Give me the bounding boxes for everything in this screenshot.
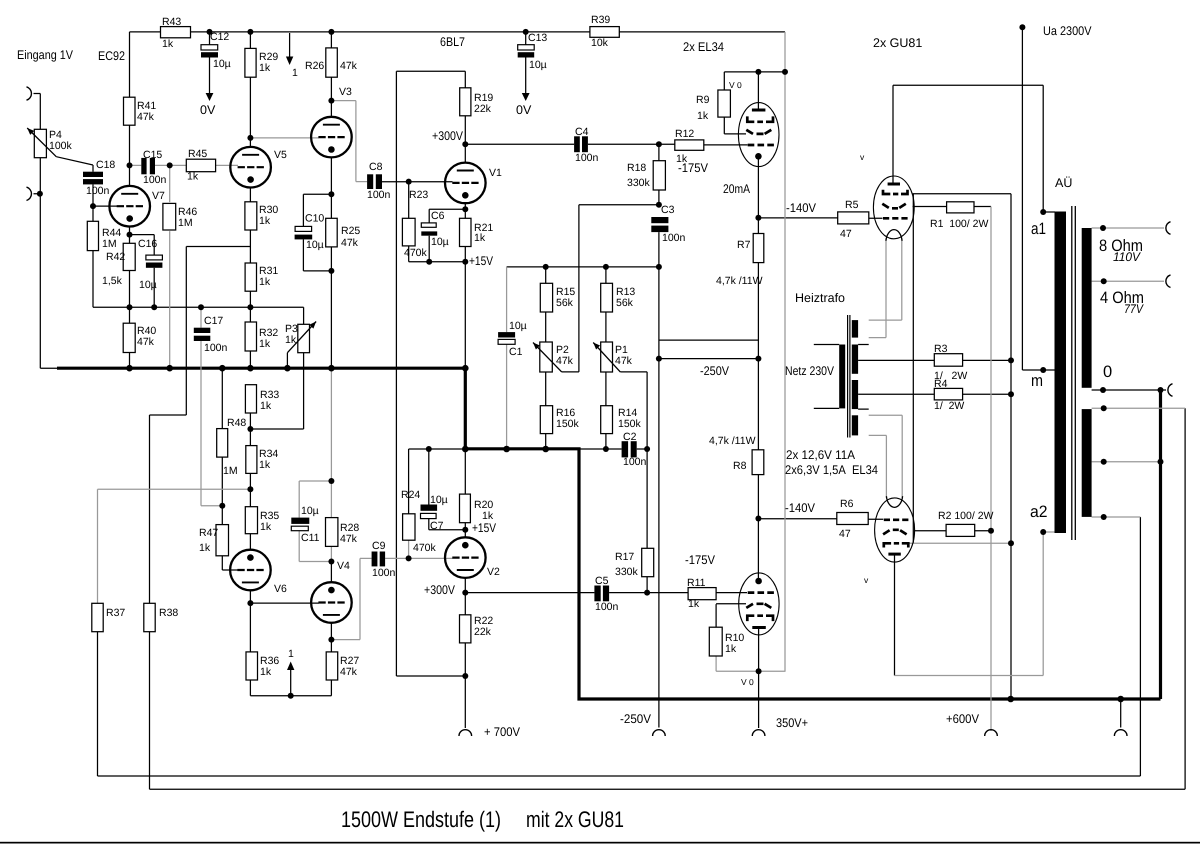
svg-text:8 Ohm: 8 Ohm [1099, 237, 1143, 255]
svg-text:R8: R8 [733, 460, 747, 472]
svg-text:C18: C18 [96, 159, 115, 171]
svg-text:+300V: +300V [432, 129, 464, 143]
svg-text:Eingang 1V: Eingang 1V [17, 48, 74, 62]
svg-text:1,5k: 1,5k [102, 275, 123, 287]
svg-text:22k: 22k [474, 626, 492, 638]
svg-text:1k: 1k [259, 276, 271, 288]
svg-text:56k: 56k [616, 297, 634, 309]
svg-text:330k: 330k [615, 566, 639, 578]
svg-text:+15V: +15V [472, 521, 497, 535]
svg-text:-140V: -140V [786, 201, 817, 215]
svg-text:350V+: 350V+ [776, 716, 808, 730]
svg-text:100n: 100n [372, 567, 396, 579]
svg-text:1k: 1k [162, 38, 174, 50]
svg-text:C17: C17 [204, 315, 223, 327]
svg-text:100n: 100n [623, 456, 647, 468]
svg-text:R26: R26 [305, 60, 324, 72]
svg-text:150k: 150k [556, 418, 580, 430]
svg-text:V6: V6 [274, 583, 287, 595]
svg-text:R48: R48 [227, 417, 246, 429]
svg-text:10µ: 10µ [431, 236, 449, 248]
svg-text:20mA: 20mA [723, 182, 751, 196]
svg-text:1k: 1k [187, 171, 199, 183]
svg-text:1k: 1k [725, 643, 737, 655]
svg-text:1k: 1k [285, 334, 297, 346]
svg-text:R4: R4 [934, 378, 948, 390]
svg-text:R23: R23 [409, 189, 428, 201]
svg-text:4 Ohm: 4 Ohm [1100, 289, 1144, 307]
svg-text:mit 2x GU81: mit 2x GU81 [526, 807, 624, 832]
svg-text:330k: 330k [627, 177, 651, 189]
svg-text:-140V: -140V [785, 501, 816, 515]
svg-text:-250V: -250V [620, 712, 652, 726]
svg-text:R25: R25 [341, 225, 360, 237]
svg-text:100n: 100n [662, 232, 686, 244]
svg-text:1k: 1k [676, 153, 688, 165]
svg-text:1k: 1k [259, 62, 271, 74]
svg-text:47: 47 [840, 228, 852, 240]
svg-text:47k: 47k [340, 666, 358, 678]
svg-text:10µ: 10µ [139, 279, 157, 291]
svg-text:C3: C3 [661, 204, 675, 216]
svg-text:47k: 47k [340, 533, 358, 545]
svg-text:56k: 56k [556, 297, 574, 309]
svg-text:a2: a2 [1030, 503, 1048, 521]
svg-text:R3: R3 [934, 343, 948, 355]
svg-text:EC92: EC92 [98, 49, 125, 63]
svg-text:47k: 47k [341, 237, 359, 249]
svg-text:V 0: V 0 [741, 677, 754, 687]
svg-text:V1: V1 [489, 167, 502, 179]
svg-text:1: 1 [288, 648, 294, 660]
svg-text:C1: C1 [509, 346, 523, 358]
svg-text:V2: V2 [487, 566, 500, 578]
svg-text:V 0: V 0 [729, 80, 742, 90]
svg-text:V3: V3 [339, 86, 352, 98]
svg-text:1k: 1k [260, 666, 272, 678]
svg-text:C9: C9 [372, 540, 386, 552]
svg-text:C15: C15 [143, 149, 162, 161]
svg-text:100n: 100n [367, 189, 391, 201]
svg-text:1k: 1k [260, 521, 272, 533]
svg-text:1M: 1M [102, 238, 117, 250]
svg-text:470k: 470k [404, 247, 428, 259]
svg-text:0: 0 [1103, 363, 1112, 381]
svg-text:R5: R5 [845, 199, 859, 211]
svg-text:V5: V5 [274, 149, 287, 161]
svg-text:R38: R38 [159, 607, 178, 619]
svg-text:R6: R6 [840, 498, 854, 510]
svg-text:10k: 10k [591, 37, 609, 49]
svg-text:1k: 1k [199, 542, 211, 554]
svg-text:470k: 470k [413, 542, 437, 554]
svg-text:R17: R17 [615, 551, 634, 563]
svg-text:47k: 47k [137, 336, 155, 348]
svg-text:R42: R42 [106, 251, 125, 263]
svg-text:100n: 100n [575, 152, 599, 164]
svg-text:R11: R11 [687, 577, 706, 589]
svg-text:1k: 1k [697, 110, 709, 122]
svg-text:Heiztrafo: Heiztrafo [795, 291, 845, 305]
svg-text:2x GU81: 2x GU81 [873, 36, 922, 50]
svg-text:R7: R7 [737, 239, 751, 251]
svg-text:47k: 47k [137, 111, 155, 123]
svg-text:C4: C4 [575, 126, 589, 138]
svg-text:47: 47 [839, 528, 851, 540]
svg-text:4,7k /11W: 4,7k /11W [716, 275, 763, 287]
svg-text:10µ: 10µ [509, 320, 527, 332]
svg-text:+300V: +300V [424, 583, 456, 597]
svg-text:1: 1 [292, 67, 298, 79]
svg-text:100k: 100k [49, 140, 73, 152]
svg-text:100n: 100n [204, 342, 228, 354]
svg-text:0V: 0V [516, 103, 532, 117]
svg-text:47k: 47k [340, 60, 358, 72]
svg-text:C16: C16 [138, 238, 157, 250]
svg-text:-175V: -175V [685, 553, 716, 567]
svg-text:2x 12,6V 11A: 2x 12,6V 11A [786, 448, 856, 462]
svg-text:1k: 1k [259, 215, 271, 227]
svg-text:a1: a1 [1031, 220, 1046, 238]
svg-text:4,7k /11W: 4,7k /11W [709, 435, 756, 447]
svg-text:R12: R12 [675, 128, 694, 140]
svg-text:47k: 47k [615, 355, 633, 367]
svg-text:1k: 1k [259, 459, 271, 471]
svg-text:R43: R43 [162, 16, 181, 28]
svg-text:R45: R45 [188, 148, 207, 160]
svg-text:1/ 2W: 1/ 2W [934, 400, 964, 412]
svg-text:22k: 22k [474, 103, 492, 115]
svg-text:C7: C7 [430, 520, 444, 532]
svg-text:100n: 100n [595, 601, 619, 613]
svg-text:1M: 1M [178, 217, 193, 229]
svg-text:10µ: 10µ [213, 58, 231, 70]
svg-text:R24: R24 [401, 489, 420, 501]
svg-text:R18: R18 [627, 162, 646, 174]
svg-text:1k: 1k [482, 510, 494, 522]
svg-text:R2 100/ 2W: R2 100/ 2W [938, 510, 994, 522]
svg-text:C6: C6 [431, 210, 445, 222]
svg-text:C10: C10 [305, 213, 324, 225]
svg-text:100n: 100n [86, 185, 110, 197]
svg-text:m: m [1031, 372, 1043, 390]
svg-text:Ua 2300V: Ua 2300V [1043, 24, 1092, 38]
svg-text:1k: 1k [260, 400, 272, 412]
svg-text:+ 700V: + 700V [484, 725, 521, 739]
svg-text:Netz 230V: Netz 230V [785, 364, 835, 378]
svg-text:10µ: 10µ [301, 505, 319, 517]
svg-text:R9: R9 [696, 94, 710, 106]
svg-text:150k: 150k [618, 418, 642, 430]
svg-text:V4: V4 [337, 560, 350, 572]
svg-text:R37: R37 [106, 607, 125, 619]
svg-text:1k: 1k [688, 598, 700, 610]
svg-text:1k: 1k [259, 338, 271, 350]
svg-text:47k: 47k [556, 355, 574, 367]
svg-text:6BL7: 6BL7 [440, 35, 465, 49]
svg-text:AÜ: AÜ [1055, 176, 1072, 190]
svg-text:R47: R47 [199, 527, 218, 539]
svg-text:10µ: 10µ [306, 239, 324, 251]
svg-text:2x6,3V 1,5A EL34: 2x6,3V 1,5A EL34 [785, 463, 878, 477]
svg-text:C8: C8 [369, 161, 383, 173]
svg-text:C5: C5 [595, 575, 609, 587]
svg-text:+600V: +600V [946, 712, 980, 726]
svg-text:R39: R39 [591, 14, 610, 26]
svg-text:C13: C13 [528, 32, 547, 44]
svg-text:1k: 1k [474, 232, 486, 244]
svg-text:V7: V7 [152, 190, 165, 202]
svg-text:C2: C2 [623, 431, 637, 443]
svg-text:2x EL34: 2x EL34 [683, 40, 724, 54]
svg-text:10µ: 10µ [529, 59, 547, 71]
svg-text:100n: 100n [143, 174, 167, 186]
svg-text:C12: C12 [210, 31, 229, 43]
svg-text:0V: 0V [200, 103, 216, 117]
svg-text:C11: C11 [301, 532, 320, 544]
svg-text:-250V: -250V [700, 364, 730, 378]
svg-text:1M: 1M [223, 465, 238, 477]
svg-text:1500W Endstufe (1): 1500W Endstufe (1) [341, 807, 501, 832]
svg-text:+15V: +15V [469, 254, 494, 268]
svg-text:R1 100/ 2W: R1 100/ 2W [930, 218, 988, 230]
svg-text:10µ: 10µ [430, 494, 448, 506]
